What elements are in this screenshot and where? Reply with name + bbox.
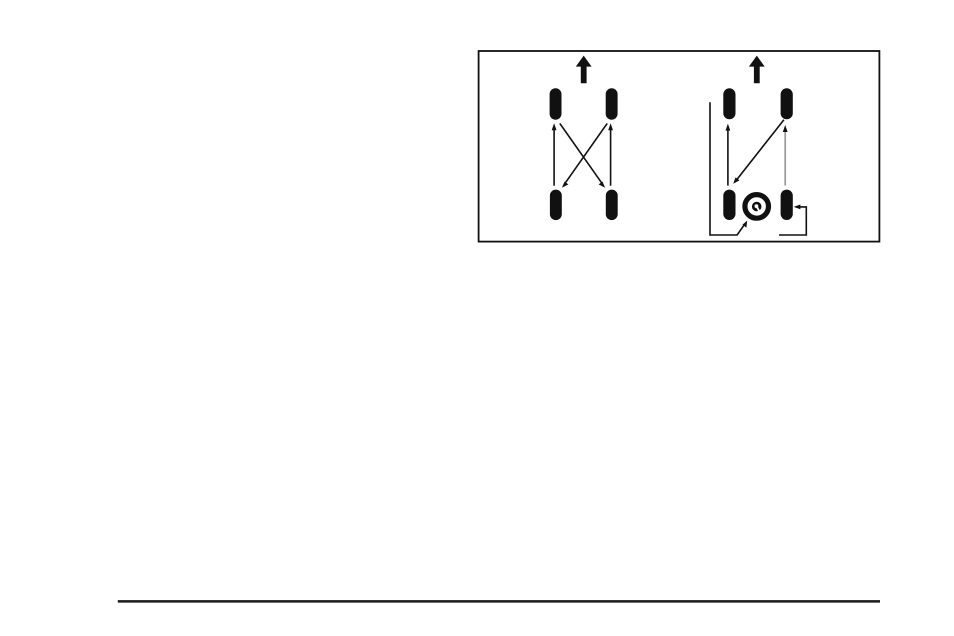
right diagram: direction-of-travel arrow (749, 56, 765, 84)
left diagram: rear-right tire (606, 190, 618, 221)
right diagram: rear-left tire (723, 190, 735, 220)
left diagram: arrow rear-right to front-right (610, 129, 612, 186)
right diagram: front-left tire (723, 88, 735, 119)
right diagram: route line spare to rear-right tire (right bracket) (779, 207, 806, 235)
right diagram: spare tire symbol (745, 195, 769, 219)
left diagram: diagonal arrow front-right to rear-left (565, 123, 607, 183)
left diagram: direction-of-travel arrow (576, 56, 592, 84)
footer rule (118, 600, 880, 603)
right diagram: arrow rear-right to front-right (gray shaft) (784, 130, 786, 186)
left diagram: front-right tire (606, 88, 618, 119)
diagram frame box (479, 51, 880, 242)
left diagram: arrow rear-left to front-left (553, 129, 555, 186)
left diagram: diagonal arrow front-left to rear-right (560, 123, 602, 183)
right diagram: arrow rear-left to front-left (727, 129, 729, 185)
right diagram: route line front-left tire to spare (left bracket) (710, 102, 744, 235)
right diagram: front-right tire (781, 88, 793, 119)
left diagram: front-left tire (550, 88, 562, 119)
right diagram: rear-right tire (781, 190, 793, 220)
right diagram: diagonal arrow front-right to rear-left (737, 120, 784, 180)
left diagram: rear-left tire (550, 190, 562, 221)
